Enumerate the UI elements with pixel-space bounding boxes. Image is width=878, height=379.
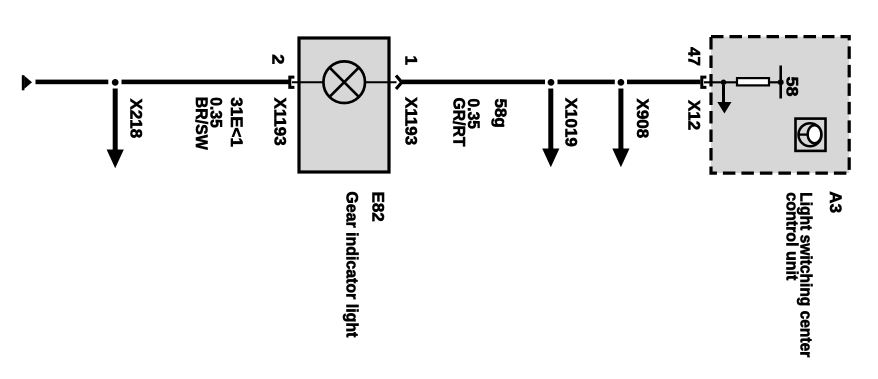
- svg-text:X218: X218: [127, 99, 146, 139]
- svg-text:X1193: X1193: [271, 98, 290, 146]
- svg-text:control unit: control unit: [783, 192, 802, 280]
- svg-text:47: 47: [685, 47, 704, 66]
- svg-text:1: 1: [402, 56, 421, 66]
- svg-text:2: 2: [269, 54, 288, 64]
- svg-text:X1019: X1019: [562, 98, 581, 147]
- svg-text:X908: X908: [633, 99, 652, 139]
- svg-text:A3: A3: [826, 191, 845, 213]
- svg-text:X12: X12: [685, 100, 704, 130]
- svg-text:58: 58: [783, 77, 802, 97]
- svg-text:BR/SW: BR/SW: [192, 97, 211, 151]
- svg-text:X1193: X1193: [402, 97, 421, 145]
- svg-text:GR/RT: GR/RT: [450, 98, 469, 148]
- svg-text:Gear indicator light: Gear indicator light: [342, 191, 361, 337]
- svg-text:E82: E82: [369, 192, 388, 222]
- svg-text:58g: 58g: [491, 99, 510, 128]
- svg-text:31E<1: 31E<1: [227, 97, 246, 147]
